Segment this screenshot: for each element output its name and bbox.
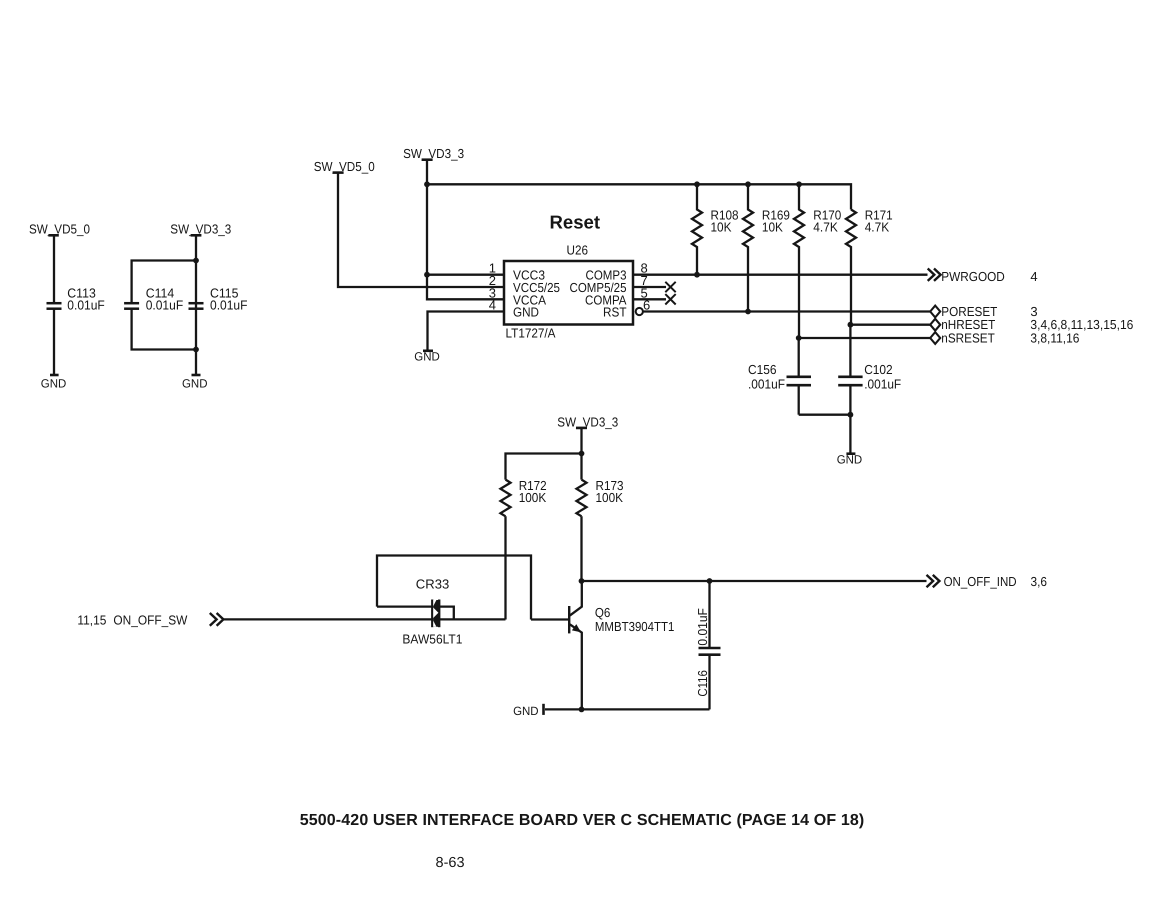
power symbol SW_VD3_3 (mid) — [403, 146, 464, 161]
svg-text:nSRESET: nSRESET — [941, 330, 995, 345]
wire base — [531, 618, 569, 620]
svg-text:ON_OFF_SW: ON_OFF_SW — [113, 612, 188, 627]
RST output bubble — [636, 308, 643, 315]
svg-text:10K: 10K — [711, 220, 732, 235]
svg-text:GND: GND — [414, 350, 440, 364]
node junction rail start — [424, 181, 430, 187]
node junction R172/R173 — [579, 451, 585, 457]
svg-text:GND: GND — [182, 376, 208, 390]
resistor R170 — [794, 184, 841, 338]
wire loop to diode top — [377, 605, 432, 607]
wire SW_VD5_0 to pin 2 — [338, 173, 504, 287]
power symbol SW_VD5_0 (left) — [29, 222, 90, 237]
svg-text:C156: C156 — [748, 362, 777, 377]
wire R172 bottom lead — [504, 516, 506, 619]
ground (under C115) — [182, 375, 208, 390]
wire SW_VD3_3 vertical to pin 3 — [427, 160, 504, 300]
wire SW_VD5_0 to C113 — [53, 235, 55, 303]
wire nSRESET — [799, 337, 931, 339]
wire caps bottom join — [799, 414, 851, 416]
port nSRESET diamond — [930, 330, 1079, 345]
wire CR33 loop box — [377, 556, 531, 620]
svg-text:0.01uF: 0.01uF — [695, 608, 710, 646]
no-connect X pin7 — [665, 282, 675, 292]
capacitor C116 — [695, 581, 721, 709]
port PORESET diamond — [930, 304, 1037, 319]
no-connect X pin5 — [665, 294, 675, 304]
svg-text:ON_OFF_IND: ON_OFF_IND — [944, 574, 1017, 589]
svg-text:10K: 10K — [762, 220, 783, 235]
svg-text:4: 4 — [1030, 269, 1037, 284]
power symbol SW_VD3_3 (left) — [170, 222, 231, 237]
node junction C114/C115 bottom — [193, 347, 199, 353]
node junction R108 top — [694, 181, 700, 187]
node junction pin1 — [424, 272, 430, 278]
svg-text:100K: 100K — [596, 490, 624, 505]
svg-text:RST: RST — [603, 305, 627, 320]
svg-text:Reset: Reset — [550, 211, 601, 232]
svg-text:SW_VD5_0: SW_VD5_0 — [29, 222, 90, 237]
wire SW_VD3_3 down to R173 — [580, 428, 582, 480]
svg-text:GND: GND — [513, 704, 539, 718]
wire C113 to GND — [53, 309, 55, 375]
svg-text:0.01uF: 0.01uF — [210, 298, 248, 313]
node junction at SW_VD3_3 branch — [193, 258, 199, 264]
svg-text:C116: C116 — [695, 670, 710, 697]
ground (U26 pin 4) — [414, 350, 440, 364]
svg-text:Q6: Q6 — [595, 605, 611, 620]
svg-text:100K: 100K — [519, 490, 547, 505]
wire pin 1 — [427, 274, 504, 276]
svg-text:3,6: 3,6 — [1031, 574, 1048, 589]
node junction R108 bottom — [694, 272, 700, 278]
capacitor C156 — [748, 338, 811, 415]
svg-text:U26: U26 — [567, 243, 589, 258]
wire R173 bottom lead — [580, 516, 582, 581]
wire ON_OFF_SW to diode — [223, 618, 431, 620]
svg-text:4.7K: 4.7K — [813, 220, 838, 235]
node junction R171 bottom — [848, 322, 854, 328]
node junction collector — [579, 578, 585, 584]
transistor Q6 MMBT3904TT1 — [569, 581, 674, 709]
svg-text:MMBT3904TT1: MMBT3904TT1 — [595, 619, 675, 634]
svg-text:BAW56LT1: BAW56LT1 — [402, 631, 462, 646]
wire diode to R172 lead — [440, 618, 506, 620]
wire pin 6 / PORESET — [643, 310, 931, 312]
wire SW_VD3_3 vertical — [195, 235, 197, 375]
wire C114 bottom to join — [132, 309, 196, 350]
ground (Q6 emitter) — [513, 704, 543, 718]
node junction R170 bottom — [796, 335, 802, 341]
svg-text:3,8,11,16: 3,8,11,16 — [1030, 330, 1079, 345]
svg-text:GND: GND — [837, 453, 863, 467]
svg-text:SW_VD3_3: SW_VD3_3 — [557, 414, 618, 429]
svg-text:11,15: 11,15 — [77, 612, 106, 627]
svg-text:C102: C102 — [864, 362, 893, 377]
wire nHRESET — [850, 324, 930, 326]
wire pin 7 no-connect — [633, 286, 666, 288]
node junction C116 top — [707, 578, 713, 584]
wire emitter to GND rail — [545, 708, 710, 710]
wire pin 4 to GND — [428, 312, 505, 351]
svg-text:5500-420 USER INTERFACE BOARD: 5500-420 USER INTERFACE BOARD VER C SCHE… — [300, 812, 865, 829]
svg-text:4: 4 — [489, 298, 496, 313]
port nHRESET diamond — [930, 317, 1133, 332]
node junction R170 top — [796, 181, 802, 187]
power symbol SW_VD3_3 (bottom) — [557, 414, 618, 429]
node junction emitter bottom — [579, 707, 585, 713]
resistor R171 — [846, 208, 893, 325]
svg-text:LT1727/A: LT1727/A — [506, 326, 556, 341]
resistor R169 — [743, 184, 790, 311]
svg-text:.001uF: .001uF — [748, 376, 785, 391]
wire top rail to R171 — [427, 184, 851, 209]
svg-text:GND: GND — [41, 376, 67, 390]
wire pin 8 / PWRGOOD — [633, 274, 928, 276]
ground (C156/C102) — [837, 453, 863, 467]
power symbol SW_VD5_0 (mid) — [314, 159, 375, 174]
node junction R169 bottom — [745, 309, 751, 315]
svg-text:8-63: 8-63 — [436, 855, 465, 871]
svg-text:0.01uF: 0.01uF — [146, 298, 184, 313]
svg-text:0.01uF: 0.01uF — [67, 298, 105, 313]
svg-text:4.7K: 4.7K — [865, 220, 890, 235]
node junction caps bottom — [848, 412, 854, 418]
capacitor C113 — [47, 286, 105, 313]
port ON_OFF_SW input — [77, 612, 223, 627]
svg-text:SW_VD5_0: SW_VD5_0 — [314, 159, 375, 174]
capacitor C114 — [124, 286, 183, 313]
svg-text:GND: GND — [513, 305, 539, 320]
svg-text:SW_VD3_3: SW_VD3_3 — [403, 146, 464, 161]
resistor R173 — [577, 478, 624, 516]
port ON_OFF_IND chevron — [927, 574, 1048, 589]
wire branch to R172 — [506, 454, 582, 480]
capacitor C102 — [838, 325, 901, 415]
svg-text:.001uF: .001uF — [864, 376, 901, 391]
resistor R172 — [501, 478, 547, 516]
wire branch to C114 — [132, 261, 196, 304]
node junction R169 top — [745, 181, 751, 187]
port PWRGOOD output chevron — [928, 269, 1038, 284]
svg-text:CR33: CR33 — [416, 576, 450, 591]
wire to GND — [849, 415, 851, 454]
wire pin 5 no-connect — [633, 298, 666, 300]
diode CR33 BAW56LT1 dual — [402, 576, 462, 646]
ground (under C113) — [41, 375, 67, 390]
capacitor C115 — [189, 286, 248, 313]
resistor R108 — [692, 184, 739, 274]
wire ON_OFF_IND rail — [582, 580, 927, 582]
svg-text:PWRGOOD: PWRGOOD — [941, 269, 1005, 284]
op-amp U26 LT1727/A supervisor chip — [504, 243, 633, 341]
